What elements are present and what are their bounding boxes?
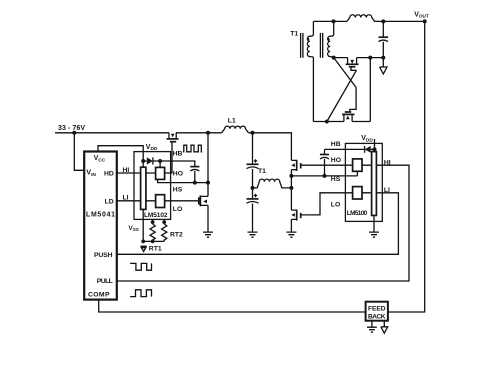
driver box U3 HO bbox=[353, 159, 362, 171]
svg-text:RT2: RT2 bbox=[170, 232, 183, 239]
svg-text:HB: HB bbox=[173, 150, 183, 157]
resistor RT2 bbox=[162, 224, 167, 240]
transformer T1 primary winding bbox=[253, 179, 292, 188]
svg-text:RT1: RT1 bbox=[149, 245, 162, 252]
IC U1 LM5041 controller box bbox=[84, 152, 117, 300]
ground secondary triangle bbox=[380, 58, 387, 74]
svg-text:LM5100: LM5100 bbox=[347, 210, 368, 217]
node switch junction bbox=[206, 131, 210, 135]
wire HS right net bbox=[291, 171, 357, 176]
wire HI to PULL bbox=[117, 165, 409, 281]
svg-text:L1: L1 bbox=[228, 118, 236, 125]
level shifter rect U2 bbox=[141, 167, 146, 209]
wire cross gate A bbox=[334, 58, 356, 88]
node input junction bbox=[72, 131, 76, 135]
wire VCC to VDD bbox=[98, 146, 143, 161]
wire HB bbox=[160, 161, 195, 167]
svg-text:HS: HS bbox=[173, 186, 183, 193]
wire HD to HI bbox=[117, 172, 156, 174]
svg-text:T1: T1 bbox=[258, 168, 266, 175]
wire HO to buck gate bbox=[165, 141, 172, 173]
block FEEDBACK bbox=[366, 302, 388, 321]
svg-text:T1: T1 bbox=[290, 31, 298, 38]
wire VOUT drop bbox=[388, 21, 425, 312]
ground divider bbox=[248, 232, 258, 237]
waveform PUSH annotation bbox=[130, 263, 151, 270]
svg-text:LM5041: LM5041 bbox=[86, 211, 115, 218]
wire COMP to feedback bbox=[99, 300, 366, 312]
IC U3 LM5100 box bbox=[345, 143, 382, 221]
inductor Lout bbox=[347, 15, 426, 22]
wire LD to LI bbox=[117, 200, 156, 202]
resistor RT1 bbox=[150, 224, 155, 240]
wire VIN drop bbox=[74, 133, 84, 171]
node VOUT bbox=[423, 19, 427, 23]
capacitor C3 divider bottom bbox=[252, 169, 254, 199]
wire switch node drop bbox=[207, 133, 209, 183]
driver box U2 HO bbox=[156, 167, 165, 179]
svg-text:LM5102: LM5102 bbox=[144, 212, 168, 219]
svg-text:BACK: BACK bbox=[368, 313, 386, 320]
wire LO right gate bbox=[301, 193, 372, 215]
svg-text:LO: LO bbox=[331, 202, 340, 209]
capacitor C4 bootstrap right bbox=[324, 149, 326, 154]
capacitor C2 divider top bbox=[252, 133, 254, 164]
node T1 to bridge mid bbox=[290, 176, 292, 210]
waveform COMP annotation bbox=[130, 290, 151, 297]
node divider midpoint bbox=[251, 186, 255, 190]
transistor Q3 half-bridge high bbox=[291, 160, 301, 176]
svg-text:PULL: PULL bbox=[97, 278, 113, 285]
transformer T1 winding B bbox=[328, 21, 334, 57]
wire input rail bbox=[55, 133, 291, 161]
transistor Q5 sync rect top bbox=[346, 58, 359, 71]
svg-text:HO: HO bbox=[173, 171, 183, 178]
capacitor Cout bbox=[382, 21, 384, 37]
capacitor bootstrap C1 bbox=[190, 166, 199, 168]
inductor L1 bbox=[222, 126, 249, 133]
level shifter rect U3 bbox=[372, 152, 377, 216]
wire secondary row3 bbox=[313, 58, 370, 122]
transistor Q6 sync rect bottom bbox=[342, 88, 356, 122]
wire LI to PUSH bbox=[117, 193, 399, 255]
svg-text:HI: HI bbox=[123, 167, 130, 174]
svg-text:FEED: FEED bbox=[368, 305, 386, 312]
svg-text:LO: LO bbox=[173, 206, 182, 213]
wire VSS bbox=[143, 209, 164, 241]
wire VDD right bbox=[374, 139, 376, 152]
transformer T1 cores bbox=[301, 33, 323, 58]
IC U2 LM5102 box bbox=[134, 152, 171, 220]
svg-text:33 - 76V: 33 - 76V bbox=[58, 125, 85, 132]
svg-text:HO: HO bbox=[331, 157, 341, 164]
wire HB right bbox=[325, 148, 365, 150]
wire HS net bbox=[158, 179, 208, 182]
ground feedback triangle bbox=[381, 321, 388, 334]
svg-text:HS: HS bbox=[331, 176, 341, 183]
ground VSS arrow bbox=[140, 246, 146, 251]
svg-text:HB: HB bbox=[331, 141, 341, 148]
ground LM5100 bbox=[369, 232, 379, 237]
waveform HB annotation bbox=[183, 145, 202, 152]
node HS right bbox=[289, 174, 293, 178]
svg-text:LI: LI bbox=[123, 195, 129, 202]
transformer T1 winding A bbox=[307, 21, 313, 121]
svg-text:COMP: COMP bbox=[88, 292, 110, 299]
wire LO to sync gate bbox=[165, 200, 199, 202]
transistor Q2 sync FET bbox=[199, 183, 208, 232]
wire secondary row2 bbox=[334, 57, 384, 59]
svg-text:PUSH: PUSH bbox=[94, 252, 113, 259]
svg-text:LD: LD bbox=[105, 198, 114, 205]
ground feedback bars bbox=[371, 321, 373, 327]
wire HO right gate bbox=[301, 164, 372, 166]
ground half-bridge bbox=[286, 232, 296, 237]
transistor Q4 half-bridge low bbox=[291, 210, 301, 232]
svg-text:HD: HD bbox=[104, 171, 114, 178]
driver box U2 LO bbox=[156, 195, 165, 208]
diode D2 bootstrap right bbox=[365, 146, 377, 153]
ground sync FET bbox=[203, 232, 213, 237]
node cap junction bbox=[381, 19, 385, 23]
diode D1 bootstrap bbox=[141, 157, 162, 167]
wire U3 to ground bbox=[373, 215, 375, 232]
wire center tap rail bbox=[313, 20, 347, 22]
node L1 right junction bbox=[251, 131, 255, 135]
wire cross gate B bbox=[327, 70, 357, 121]
transistor Q1 buck FET bbox=[167, 133, 179, 142]
driver box U3 LO bbox=[353, 187, 362, 199]
